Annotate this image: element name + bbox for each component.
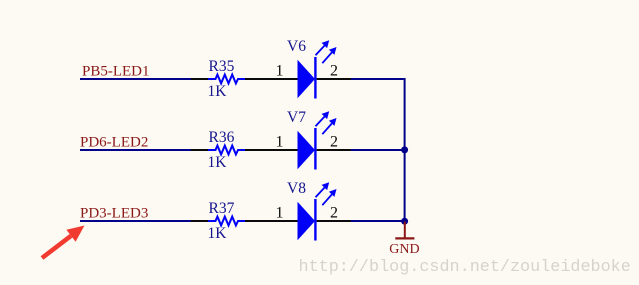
svg-text:PB5-LED1: PB5-LED1 [82,64,150,80]
light arrows of V7 [316,111,337,134]
svg-text:V7: V7 [287,109,306,126]
wire pin 1 of R35 [191,78,208,80]
wire pin 2 of V7 [317,149,351,151]
svg-text:GND: GND [389,242,419,257]
svg-text:1: 1 [276,134,284,151]
svg-text:1K: 1K [208,83,228,100]
svg-text:R35: R35 [209,58,235,75]
wire V8 to rail [351,220,405,222]
svg-text:V8: V8 [287,180,306,197]
wire R37 to V8 [245,220,298,222]
svg-text:1: 1 [276,205,284,222]
LED V7 [298,128,317,170]
wire GND stub [404,222,406,239]
resistor R36 [208,146,245,155]
wire R36 to V7 [245,149,298,151]
svg-text:PD3-LED3: PD3-LED3 [80,205,148,221]
junction row2 [401,146,408,153]
svg-text:2: 2 [330,63,338,80]
wire pin 1 of R37 [191,220,208,222]
junction row3 [401,218,408,225]
svg-text:http://blog.csdn.net/zouleideb: http://blog.csdn.net/zouleideboke [299,258,631,277]
wire vertical rail [404,79,405,222]
resistor R37 [208,217,245,226]
wire net PB5-LED1 [80,78,191,80]
wire R35 to V6 [245,78,298,80]
wire V7 to rail [351,149,405,151]
wire pin 1 of R36 [191,149,208,151]
wire pin 2 of V6 [317,78,351,80]
svg-text:1: 1 [276,63,284,80]
LED V8 [298,199,317,241]
svg-text:R36: R36 [209,129,235,146]
ground bar [395,237,414,239]
light arrows of V6 [316,40,337,63]
svg-text:R37: R37 [209,200,235,217]
wire pin 2 of V8 [317,220,351,222]
annotation red arrow [41,226,85,260]
LED V6 [298,57,317,99]
wire net PD3-LED3 [80,220,191,222]
svg-text:2: 2 [330,134,338,151]
wire net PD6-LED2 [80,149,191,151]
svg-text:1K: 1K [208,154,228,171]
svg-text:PD6-LED2: PD6-LED2 [80,135,148,151]
wire V6 to rail [351,78,404,80]
light arrows of V8 [316,182,337,205]
svg-text:1K: 1K [208,225,228,242]
svg-text:V6: V6 [287,38,306,55]
svg-text:2: 2 [330,205,338,222]
resistor R35 [208,75,245,84]
